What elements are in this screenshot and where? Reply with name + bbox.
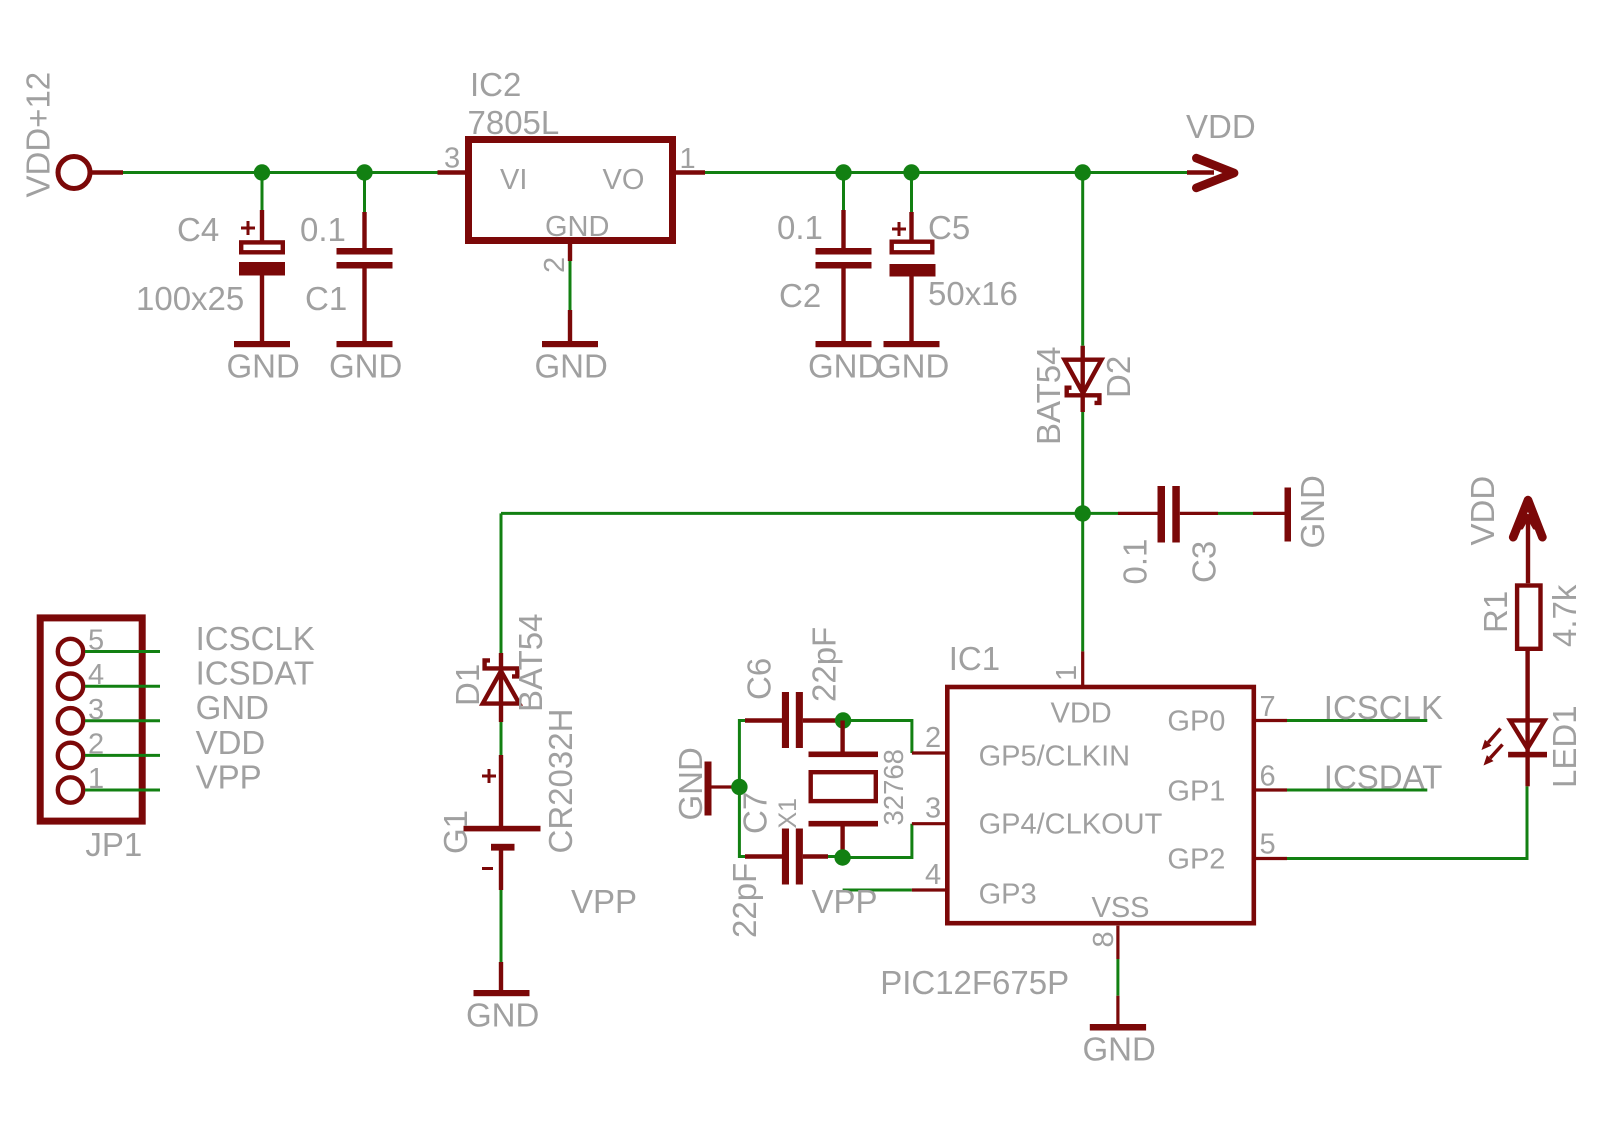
svg-text:GND: GND	[545, 211, 609, 243]
pin 5 circle	[58, 639, 83, 664]
wire IC1 pin 5 stub	[1256, 857, 1287, 860]
wire IC2 pin 3 stub	[438, 170, 467, 174]
node VDD+12 label	[20, 72, 57, 198]
wire IC1 pin 6 stub	[1256, 788, 1287, 791]
svg-text:22pF: 22pF	[726, 863, 763, 938]
svg-text:GND: GND	[672, 747, 709, 820]
pin name VO	[603, 164, 645, 196]
net label ICSCLK (right)	[1324, 689, 1443, 726]
svg-text:4: 4	[88, 659, 104, 691]
svg-text:PIC12F675P: PIC12F675P	[880, 964, 1069, 1001]
svg-text:4.7k: 4.7k	[1546, 584, 1583, 647]
pin 4 circle	[58, 674, 83, 699]
label IC2	[470, 66, 521, 103]
svg-text:D1: D1	[449, 664, 486, 706]
junction at C5	[903, 164, 919, 180]
svg-text:0.1: 0.1	[1117, 539, 1154, 585]
pin number 1	[680, 143, 696, 175]
label LED1 (rotated)	[1546, 705, 1583, 788]
supply VDD arrow (right, up)	[1513, 500, 1542, 583]
svg-text:LED1: LED1	[1546, 705, 1583, 788]
svg-text:ICSDAT: ICSDAT	[196, 655, 315, 692]
svg-text:5: 5	[1260, 829, 1276, 861]
capacitor C7 (22pF)	[745, 829, 828, 885]
pin number 4 (IC1)	[925, 859, 941, 891]
svg-text:VO: VO	[603, 164, 645, 196]
junction VDD node at D2	[1075, 505, 1091, 521]
label C2	[779, 277, 821, 314]
pin name VSS	[1092, 892, 1150, 924]
pin name GP0	[1167, 706, 1225, 738]
net label ICSDAT (right)	[1324, 759, 1443, 796]
pin number 3 (IC1)	[925, 793, 941, 825]
svg-text:ICSCLK: ICSCLK	[196, 620, 315, 657]
pin number 5 (IC1)	[1260, 829, 1276, 861]
svg-text:GND: GND	[808, 348, 881, 385]
svg-text:5: 5	[88, 625, 104, 657]
svg-text:GP4/CLKOUT: GP4/CLKOUT	[979, 809, 1163, 841]
wire D2 to VPP node	[1081, 412, 1084, 513]
pin name GND (IC2)	[545, 211, 609, 243]
ground under C4	[227, 341, 300, 385]
value BAT54 (D1, rotated)	[512, 614, 549, 712]
label R1 (rotated)	[1477, 591, 1514, 633]
svg-text:GP5/CLKIN: GP5/CLKIN	[979, 741, 1131, 773]
svg-text:VDD: VDD	[1051, 698, 1112, 730]
pin circle VDD+12 input	[58, 157, 90, 189]
led arrow 1	[1482, 729, 1501, 751]
svg-text:IC2: IC2	[470, 66, 521, 103]
net label VPP (battery)	[571, 883, 637, 920]
capacitor C2 (0.1)	[816, 173, 872, 342]
junction at C7 right	[834, 849, 850, 865]
svg-text:0.1: 0.1	[777, 209, 823, 246]
junction at D2	[1075, 164, 1091, 180]
pin number 3	[444, 143, 460, 175]
svg-text:2: 2	[925, 722, 941, 754]
svg-text:R1: R1	[1477, 591, 1514, 633]
net label ICSDAT (JP1)	[196, 655, 315, 692]
pin name GP2	[1167, 844, 1225, 876]
svg-text:BAT54: BAT54	[1030, 347, 1067, 445]
ic IC1 PIC12F675P box	[947, 687, 1254, 923]
label X1 (rotated)	[774, 798, 802, 829]
svg-text:GP0: GP0	[1167, 706, 1225, 738]
svg-text:C2: C2	[779, 277, 821, 314]
wire IC1 pin 2 stub	[912, 751, 947, 754]
wire VDD node horizontal row	[501, 512, 1118, 515]
svg-text:32768: 32768	[878, 749, 909, 825]
wire pin stub to rail	[92, 170, 124, 174]
svg-text:ICSCLK: ICSCLK	[1324, 689, 1443, 726]
net label VDD (JP1)	[196, 724, 266, 761]
svg-text:BAT54: BAT54	[512, 614, 549, 712]
junction at C2	[835, 164, 851, 180]
junction at C4	[254, 164, 270, 180]
wire VDD node down to D2	[1081, 173, 1084, 346]
svg-text:3: 3	[925, 793, 941, 825]
ground under C5	[876, 341, 949, 385]
svg-text:G1: G1	[437, 810, 474, 854]
label C7 (rotated)	[737, 792, 774, 834]
wire VPP node down leg	[500, 513, 503, 653]
svg-text:7: 7	[1260, 691, 1276, 723]
capacitor C1 (0.1)	[337, 173, 393, 342]
svg-text:4: 4	[925, 859, 941, 891]
label 0.1 (C2)	[777, 209, 823, 246]
label 0.1 (C1)	[300, 211, 346, 248]
svg-text:CR2032H: CR2032H	[542, 709, 579, 854]
junction at C1	[356, 164, 372, 180]
resistor R1 4.7k	[1517, 586, 1540, 649]
value CR2032H (rotated)	[542, 709, 579, 854]
label C3 (rotated)	[1186, 541, 1223, 583]
led arrow 2	[1484, 745, 1503, 766]
wire C7 to IC1 pin 3	[828, 824, 912, 858]
svg-text:100x25: 100x25	[136, 280, 244, 317]
svg-text:3: 3	[444, 143, 460, 175]
wire C3 to ground	[1218, 512, 1285, 515]
pin number 4	[88, 659, 104, 691]
value BAT54 (D2, rotated)	[1030, 347, 1067, 445]
pin number 6 (IC1)	[1260, 760, 1276, 792]
pin 2 circle	[58, 743, 83, 768]
label JP1	[85, 826, 142, 863]
value 4.7k (rotated)	[1546, 584, 1583, 647]
svg-text:6: 6	[1260, 760, 1276, 792]
wire IC2 GND pin to ground	[568, 244, 572, 341]
svg-text:GND: GND	[1294, 475, 1331, 548]
wire C6/C7 left bus	[739, 721, 747, 857]
net label VPP (GP3)	[812, 883, 878, 920]
value 100x25	[136, 280, 244, 317]
pin name GP4/CLKOUT	[979, 809, 1163, 841]
pin number 1 (rotated)	[1051, 665, 1083, 681]
label G1 (rotated)	[437, 810, 474, 854]
pin number 2	[88, 728, 104, 760]
svg-text:GP3: GP3	[979, 879, 1037, 911]
svg-text:1: 1	[1051, 665, 1083, 681]
svg-text:JP1: JP1	[85, 826, 142, 863]
ground under C1	[329, 341, 402, 385]
capacitor C3 (0.1)	[1118, 486, 1218, 543]
svg-text:GND: GND	[1083, 1031, 1156, 1068]
wire IC1 pin 3 stub	[912, 822, 947, 825]
value PIC12F675P	[880, 964, 1069, 1001]
wire GND stub (JP1 pin 3)	[85, 719, 160, 722]
net label VDD (right, rotated)	[1464, 476, 1501, 546]
pin name VI	[500, 164, 527, 196]
svg-text:GND: GND	[466, 997, 539, 1034]
led LED1	[1508, 720, 1547, 786]
wire IC2 pin 1 stub	[676, 170, 705, 174]
wire battery to ground	[500, 890, 503, 990]
wire main +12V rail left	[123, 171, 438, 174]
pin name VDD (IC1)	[1051, 698, 1112, 730]
pin number 5	[88, 625, 104, 657]
label C5	[928, 209, 970, 246]
svg-text:50x16: 50x16	[928, 275, 1018, 312]
value 7805L	[468, 104, 560, 141]
diode D2 BAT54 (schottky, cathode down)	[1065, 346, 1102, 412]
pin number 1	[88, 763, 104, 795]
svg-text:C7: C7	[737, 792, 774, 834]
wire VPP stub (JP1 pin 1)	[85, 789, 160, 792]
svg-text:VPP: VPP	[812, 883, 878, 920]
svg-text:8: 8	[1088, 931, 1120, 947]
capacitor C4 (polarized 100x25)	[239, 173, 285, 342]
svg-text:C1: C1	[305, 280, 347, 317]
svg-text:GP1: GP1	[1167, 776, 1225, 808]
net label VPP (JP1)	[196, 758, 262, 795]
svg-text:C6: C6	[741, 658, 778, 700]
wire IC1 pin 1 stub	[1081, 651, 1084, 687]
value 22pF (C7, rotated)	[726, 863, 763, 938]
wire ICSDAT net	[1287, 789, 1427, 792]
svg-text:0.1: 0.1	[300, 211, 346, 248]
wire D1 to battery	[500, 722, 503, 755]
capacitor C5 (polarized 50x16)	[890, 173, 936, 342]
crystal X1 32768	[809, 721, 879, 858]
pin number 8 (rotated)	[1088, 931, 1120, 947]
svg-text:C5: C5	[928, 209, 970, 246]
wire VPP to IC1 pin 4	[843, 889, 912, 892]
svg-text:2: 2	[88, 728, 104, 760]
wire IC1 pin 4 stub	[912, 888, 947, 891]
label C1	[305, 280, 347, 317]
wire node to IC1 pin 1	[1081, 513, 1084, 651]
pin name GP5/CLKIN	[979, 741, 1131, 773]
pin name GP1	[1167, 776, 1225, 808]
svg-text:VI: VI	[500, 164, 527, 196]
net label VDD (top right)	[1186, 108, 1256, 145]
pin number 2 (rotated)	[539, 257, 571, 273]
svg-text:VDD+12: VDD+12	[20, 72, 57, 198]
pin number 3	[88, 694, 104, 726]
svg-text:D2: D2	[1100, 356, 1137, 398]
wire GP2 to LED	[1287, 786, 1527, 858]
svg-text:7805L: 7805L	[468, 104, 560, 141]
svg-text:VPP: VPP	[196, 758, 262, 795]
svg-text:ICSDAT: ICSDAT	[1324, 759, 1443, 796]
junction GND bus	[731, 779, 747, 795]
diode D1 BAT54 (schottky, cathode up)	[483, 653, 520, 722]
svg-text:GP2: GP2	[1167, 844, 1225, 876]
svg-text:GND: GND	[196, 689, 269, 726]
svg-text:VSS: VSS	[1092, 892, 1150, 924]
svg-text:GND: GND	[876, 348, 949, 385]
svg-text:GND: GND	[329, 348, 402, 385]
label IC1	[949, 640, 1000, 677]
ground under G1	[466, 990, 539, 1034]
wire ICSDAT stub (JP1 pin 4)	[85, 685, 160, 688]
svg-text:3: 3	[88, 694, 104, 726]
net label GND (JP1)	[196, 689, 269, 726]
ground left of C7 (rotated)	[672, 747, 736, 820]
wire VSS pin to ground	[1116, 926, 1119, 1024]
label D1 (rotated)	[449, 664, 486, 706]
connector JP1	[40, 618, 142, 821]
svg-text:1: 1	[88, 763, 104, 795]
wire IC1 pin 7 stub	[1256, 719, 1287, 722]
pin number 2 (IC1)	[925, 722, 941, 754]
net label ICSCLK (JP1)	[196, 620, 315, 657]
svg-text:C4: C4	[177, 211, 219, 248]
svg-text:VDD: VDD	[196, 724, 266, 761]
regulator IC2 7805L	[469, 140, 673, 241]
svg-text:VDD: VDD	[1464, 476, 1501, 546]
wire VDD rail right	[705, 171, 1187, 174]
svg-text:X1: X1	[774, 798, 802, 829]
wire C6 to IC1 pin 2	[843, 721, 912, 754]
wire VDD stub (JP1 pin 2)	[85, 754, 160, 757]
label D2 (rotated)	[1100, 356, 1137, 398]
svg-text:IC1: IC1	[949, 640, 1000, 677]
value 22pF (C6, rotated)	[806, 627, 843, 702]
value 32768 (rotated)	[878, 749, 909, 825]
svg-text:1: 1	[680, 143, 696, 175]
pin 1 circle	[58, 777, 83, 802]
wire R1 to LED1	[1525, 649, 1529, 757]
label 0.1 (C3, rotated)	[1117, 539, 1154, 585]
wire ICSCLK net	[1287, 719, 1427, 722]
svg-text:VDD: VDD	[1186, 108, 1256, 145]
label C6 (rotated)	[741, 658, 778, 700]
supply VDD arrow (top right)	[1187, 158, 1234, 188]
ground under C2	[808, 341, 881, 385]
pin 3 circle	[58, 708, 83, 733]
svg-text:2: 2	[539, 257, 571, 273]
label C4	[177, 211, 219, 248]
pin name GP3	[979, 879, 1037, 911]
capacitor C6 (22pF)	[745, 692, 843, 748]
junction at C6 right	[835, 712, 851, 728]
pin number 7 (IC1)	[1260, 691, 1276, 723]
svg-text:C3: C3	[1186, 541, 1223, 583]
ground right of C3 (rotated)	[1285, 475, 1332, 548]
ground under IC2	[535, 341, 608, 385]
wire ICSCLK stub (JP1 pin 5)	[85, 650, 160, 653]
svg-text:VPP: VPP	[571, 883, 637, 920]
value 50x16	[928, 275, 1018, 312]
svg-text:22pF: 22pF	[806, 627, 843, 702]
svg-text:GND: GND	[227, 348, 300, 385]
svg-text:GND: GND	[535, 348, 608, 385]
ground under IC1 VSS	[1083, 1024, 1156, 1068]
battery G1 CR2032H	[464, 755, 541, 890]
